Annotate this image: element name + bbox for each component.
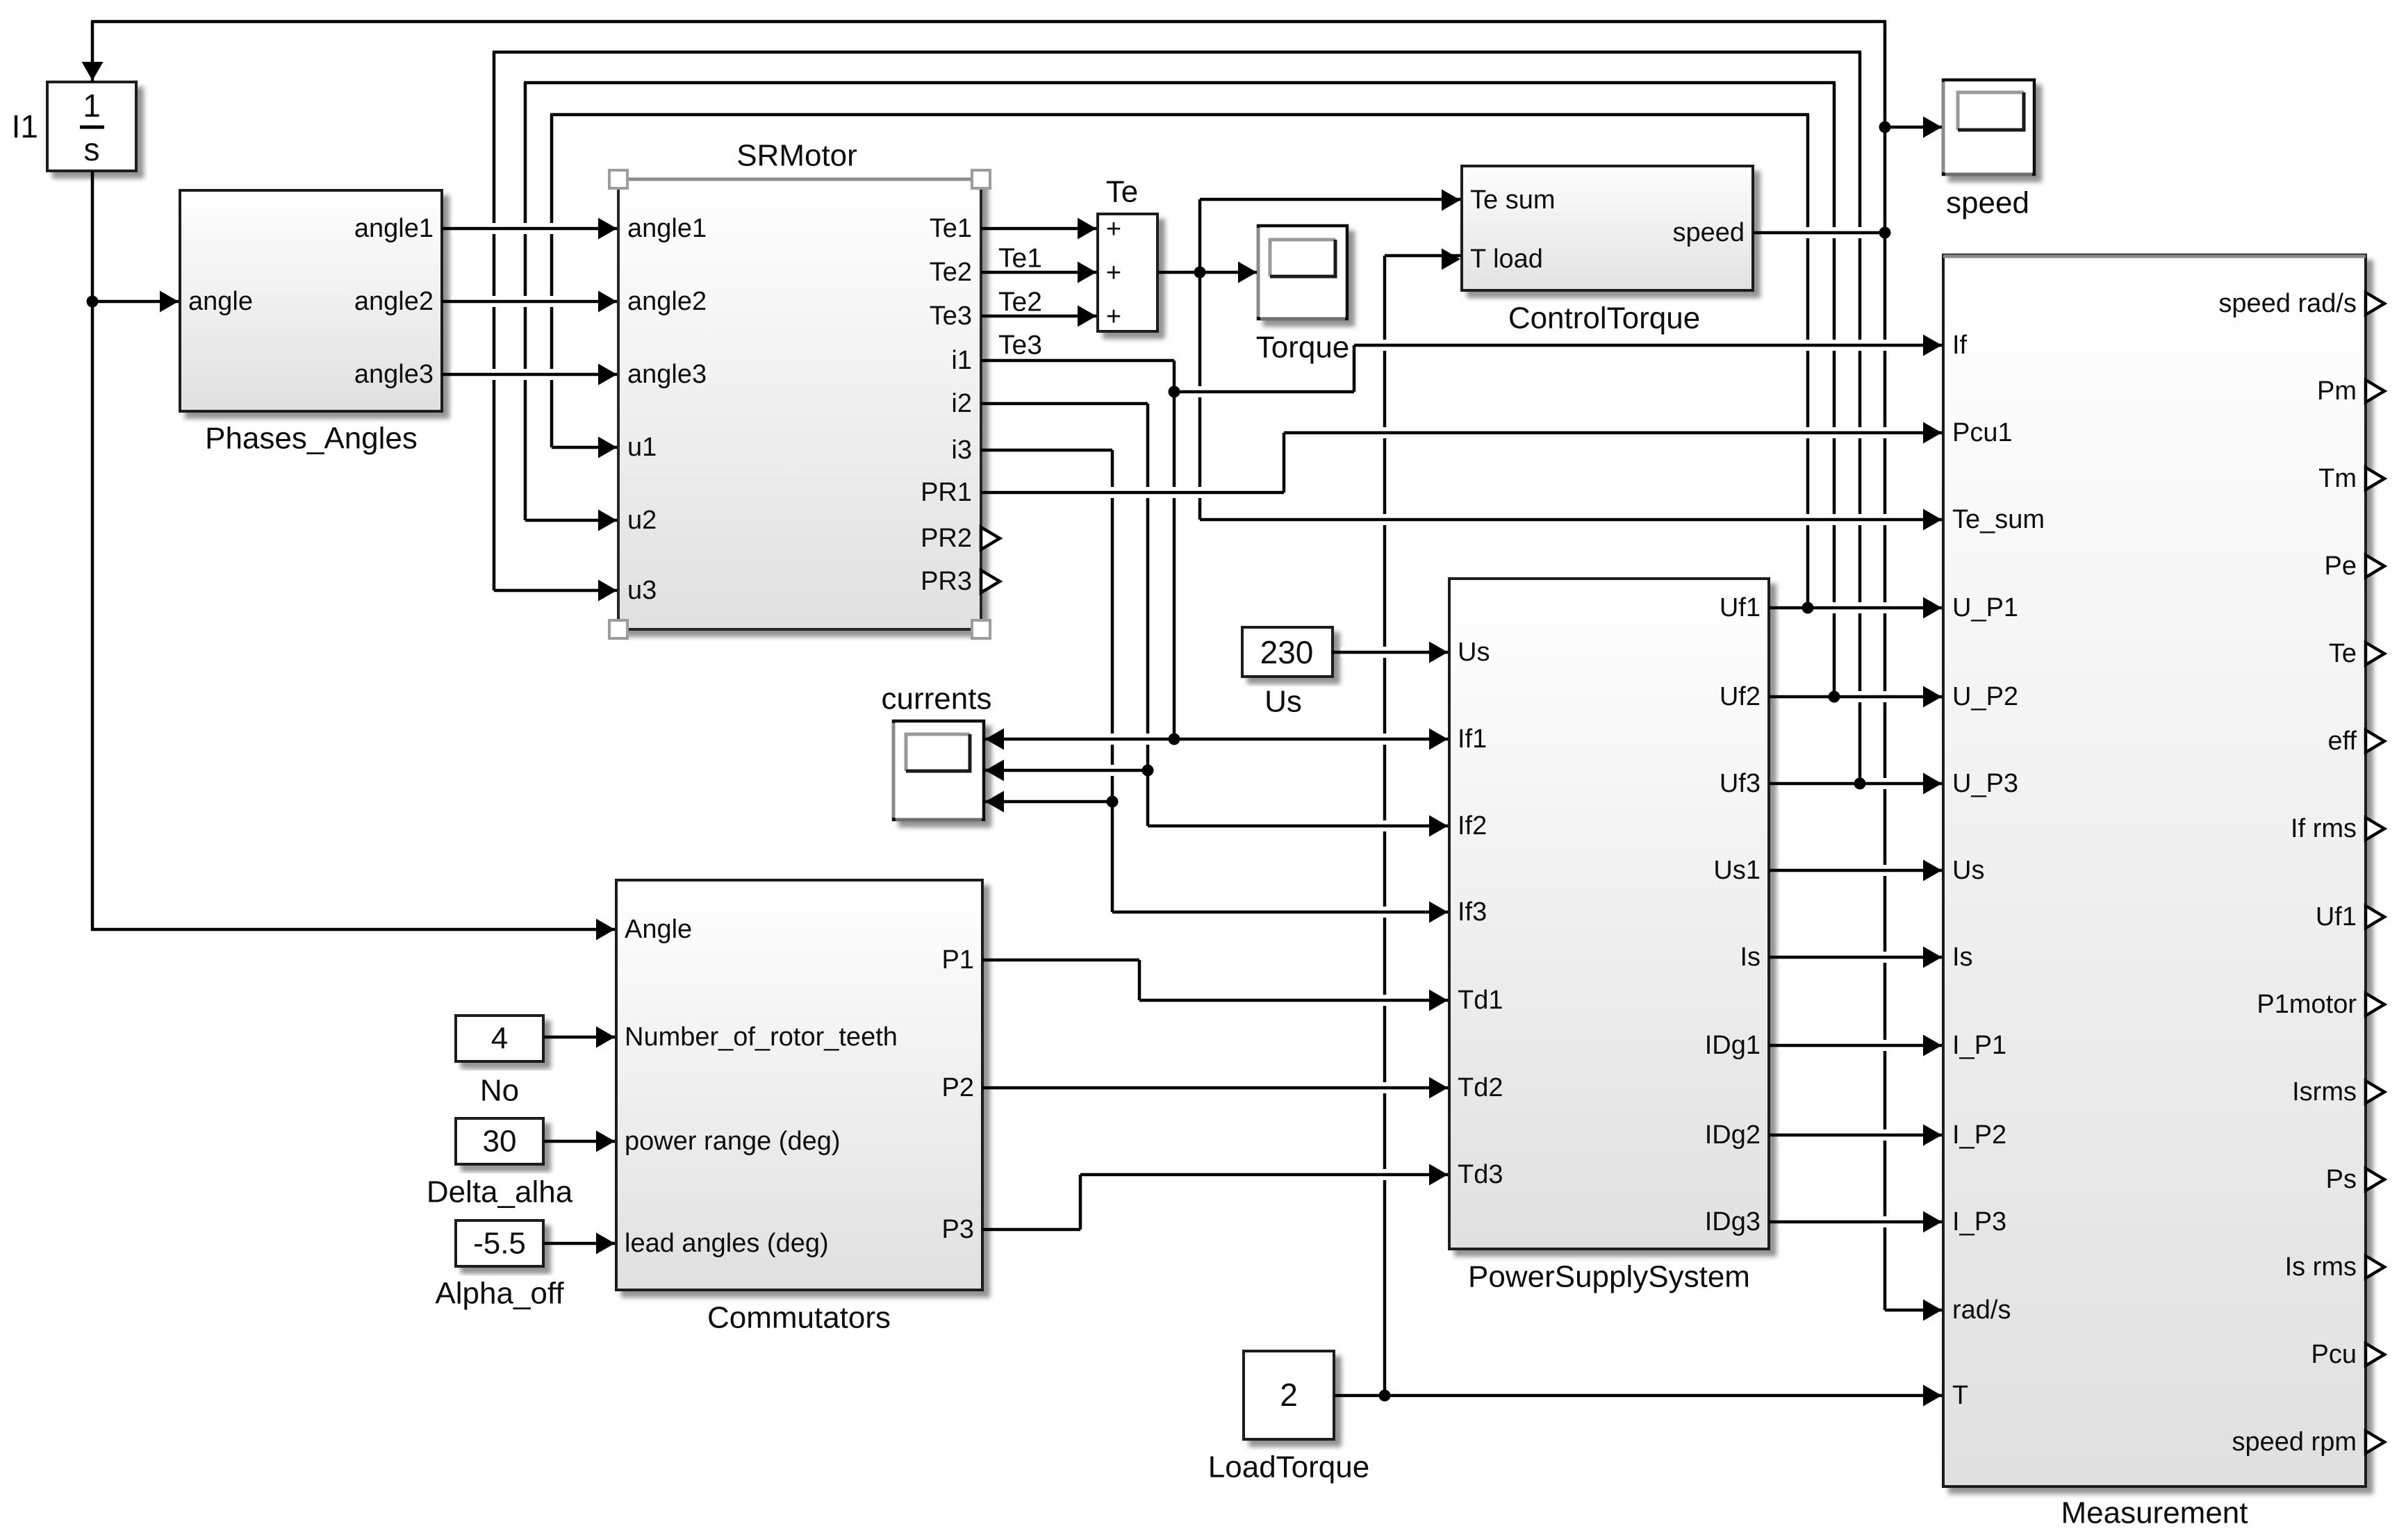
node Uf3 branch — [1854, 778, 1866, 790]
scope currents (mirrored) — [893, 721, 984, 820]
svg-text:rad/s: rad/s — [1952, 1295, 2011, 1325]
sum block Te — [1098, 214, 1157, 331]
wire Uf1 feedback riser — [1806, 115, 1810, 608]
svg-text:i3: i3 — [951, 436, 972, 465]
svg-text:speed: speed — [1946, 186, 2029, 220]
svg-text:i1: i1 — [951, 346, 972, 375]
svg-text:P3: P3 — [942, 1215, 974, 1244]
svg-text:Uf3: Uf3 — [1720, 769, 1761, 798]
svg-text:Te2: Te2 — [998, 288, 1042, 317]
constant No value 4 — [456, 1016, 543, 1061]
svg-text:Pcu: Pcu — [2311, 1340, 2357, 1369]
svg-text:ControlTorque: ControlTorque — [1508, 301, 1700, 336]
svg-text:Angle: Angle — [625, 915, 692, 944]
wire angle3 — [452, 369, 610, 380]
svg-text:Is: Is — [1952, 943, 1973, 972]
svg-text:angle2: angle2 — [627, 287, 707, 316]
wire Te_sum down to Measurement — [1210, 514, 1937, 525]
wire u2 feedback riser — [524, 83, 527, 520]
node angle branch — [87, 296, 99, 308]
svg-text:Te1: Te1 — [930, 214, 972, 243]
svg-text:Te3: Te3 — [930, 301, 972, 331]
open port PR3 — [981, 570, 1000, 593]
svg-text:LoadTorque: LoadTorque — [1208, 1450, 1369, 1484]
svg-text:angle3: angle3 — [627, 360, 707, 389]
arrow into I1 — [82, 62, 104, 81]
wire LoadTorque to T — [1334, 1394, 1942, 1398]
svg-text:4: 4 — [491, 1022, 508, 1056]
wire i1 — [981, 359, 1174, 363]
wire to Commutators Angle — [91, 928, 615, 932]
subsystem ControlTorque — [1462, 166, 1753, 290]
node speed scope branch — [1879, 122, 1891, 133]
svg-text:If2: If2 — [1458, 811, 1487, 841]
svg-text:Delta_alha: Delta_alha — [427, 1175, 573, 1209]
svg-text:Tm: Tm — [2318, 464, 2357, 493]
svg-text:u3: u3 — [627, 576, 657, 605]
wire i3 — [981, 449, 1112, 452]
wire Te sum up to ControlTorque — [1200, 198, 1460, 201]
svg-text:Te sum: Te sum — [1470, 185, 1555, 215]
subsystem PowerSupplySystem — [1449, 579, 1769, 1249]
wire Uf3 to u3 top — [493, 51, 1861, 54]
wire i3 riser — [1111, 450, 1114, 912]
wire Is to Is — [1779, 952, 1937, 963]
arrow into speed scope — [1923, 117, 1942, 138]
node Uf1 branch — [1802, 602, 1814, 614]
svg-text:s: s — [84, 131, 100, 167]
wire Te sum output — [1157, 271, 1257, 274]
svg-text:Pcu1: Pcu1 — [1952, 418, 2013, 447]
svg-text:Te: Te — [1106, 175, 1138, 209]
svg-text:SRMotor: SRMotor — [736, 139, 857, 173]
svg-text:Number_of_rotor_teeth: Number_of_rotor_teeth — [625, 1022, 898, 1052]
svg-text:power range (deg): power range (deg) — [625, 1127, 841, 1156]
svg-text:Td2: Td2 — [1458, 1073, 1503, 1102]
arrow into T load port — [1442, 249, 1460, 270]
node i3-currents junction — [1107, 796, 1119, 808]
svg-text:If: If — [1952, 331, 1968, 360]
wire into u2 — [525, 519, 617, 522]
wire Alpha_off — [543, 1242, 615, 1245]
svg-text:T load: T load — [1470, 245, 1543, 274]
svg-text:PR2: PR2 — [921, 524, 972, 553]
svg-text:Phases_Angles: Phases_Angles — [205, 422, 418, 456]
svg-text:Ps: Ps — [2326, 1165, 2357, 1194]
svg-text:speed rpm: speed rpm — [2232, 1427, 2357, 1457]
wire Te_sum riser — [1198, 199, 1202, 520]
wire No — [543, 1036, 615, 1039]
constant Us value 230 — [1242, 627, 1333, 677]
wire P3 to Td3 — [982, 1228, 1080, 1232]
wire Us1 to Us — [1779, 865, 1937, 876]
subsystem SRMotor — [618, 179, 981, 629]
svg-text:Td1: Td1 — [1458, 986, 1503, 1015]
svg-text:IDg3: IDg3 — [1705, 1207, 1761, 1236]
svg-text:IDg2: IDg2 — [1705, 1120, 1761, 1150]
wire Uf2 to u2 top — [524, 81, 1836, 85]
scope speed — [1943, 80, 2034, 174]
wire P1 to Td1 — [982, 959, 1139, 962]
open ports Measurement outputs — [2366, 292, 2384, 315]
svg-text:30: 30 — [483, 1125, 517, 1159]
constant Alpha_off value -5.5 — [456, 1220, 543, 1266]
wire T load — [1385, 254, 1460, 258]
svg-text:+: + — [1106, 258, 1121, 288]
wire into u3 — [494, 589, 617, 593]
svg-text:P1: P1 — [942, 945, 974, 975]
node Te sum branch — [1194, 267, 1206, 279]
arrow into angle — [160, 291, 179, 313]
svg-text:speed: speed — [1672, 218, 1745, 247]
wire If1 row — [995, 734, 1440, 745]
svg-text:Commutators: Commutators — [707, 1301, 891, 1335]
integrator I1 (1/s) — [47, 82, 136, 171]
wire angle1 — [452, 223, 610, 234]
wire to angle input — [92, 300, 179, 304]
svg-text:lead angles (deg): lead angles (deg) — [625, 1229, 829, 1258]
svg-text:Us: Us — [1458, 638, 1490, 667]
svg-text:Is: Is — [1740, 943, 1761, 972]
wire I1 output down — [91, 171, 94, 931]
svg-text:Te: Te — [2329, 639, 2357, 668]
arrows into Measurement — [1923, 335, 1942, 356]
subsystem Measurement — [1943, 255, 2366, 1487]
svg-text:U_P1: U_P1 — [1952, 593, 2018, 622]
wire Te2 — [981, 271, 1096, 274]
svg-text:PowerSupplySystem: PowerSupplySystem — [1468, 1260, 1750, 1294]
svg-text:Us1: Us1 — [1713, 856, 1761, 885]
svg-text:+: + — [1106, 302, 1121, 331]
svg-text:angle1: angle1 — [354, 214, 434, 243]
svg-text:angle3: angle3 — [354, 360, 434, 389]
svg-text:T: T — [1952, 1381, 1968, 1410]
wire Te1 — [981, 227, 1096, 231]
arrows into PowerSupplySystem — [1429, 642, 1448, 663]
wire Te3 — [981, 315, 1096, 318]
svg-text:230: 230 — [1260, 634, 1314, 670]
svg-text:If1: If1 — [1458, 725, 1487, 754]
wire Uf3 feedback riser — [1858, 52, 1862, 784]
svg-text:I_P1: I_P1 — [1952, 1031, 2006, 1060]
wire angle2 — [452, 296, 610, 307]
svg-text:currents: currents — [882, 682, 992, 716]
svg-text:speed rad/s: speed rad/s — [2218, 289, 2357, 318]
svg-text:PR3: PR3 — [921, 567, 972, 596]
svg-text:Isrms: Isrms — [2292, 1077, 2357, 1107]
wire to rad/s — [1885, 1309, 1942, 1312]
svg-text:IDg1: IDg1 — [1705, 1031, 1761, 1060]
wire PR1 to Pcu1 — [994, 487, 1278, 498]
wire i2 riser — [1146, 404, 1150, 826]
wire to currents port3 — [984, 800, 1112, 804]
wire Uf1 to u1 top — [550, 113, 1809, 117]
svg-text:Us: Us — [1952, 856, 1984, 885]
wire Uf2 feedback riser — [1833, 83, 1836, 697]
wire i2 — [981, 402, 1148, 406]
wire IDg1 to I_P1 — [1779, 1040, 1937, 1051]
svg-text:2: 2 — [1280, 1377, 1298, 1413]
svg-text:Alpha_off: Alpha_off — [435, 1277, 564, 1311]
svg-text:Uf1: Uf1 — [2316, 902, 2357, 932]
node LoadTorque branch — [1379, 1390, 1391, 1402]
svg-text:No: No — [480, 1074, 519, 1108]
svg-text:Pe: Pe — [2325, 552, 2357, 581]
svg-text:angle: angle — [188, 287, 253, 316]
constant Delta_alha value 30 — [456, 1118, 543, 1164]
svg-text:Is rms: Is rms — [2285, 1252, 2357, 1282]
svg-text:Uf1: Uf1 — [1720, 593, 1761, 622]
wire speed feedback top — [91, 20, 1886, 24]
svg-text:If3: If3 — [1458, 897, 1487, 927]
arrows into Commutators — [596, 919, 615, 941]
svg-text:u1: u1 — [627, 433, 657, 462]
svg-text:Td3: Td3 — [1458, 1160, 1503, 1189]
svg-text:Te2: Te2 — [930, 258, 972, 287]
wire speed output — [1762, 227, 1876, 238]
wire into u1 — [552, 446, 617, 449]
wire Delta_alha — [543, 1140, 615, 1143]
svg-text:-5.5: -5.5 — [473, 1227, 526, 1261]
svg-text:I_P3: I_P3 — [1952, 1207, 2006, 1236]
open port PR2 — [981, 527, 1000, 549]
svg-text:i2: i2 — [951, 389, 972, 418]
svg-text:Te1: Te1 — [998, 244, 1042, 274]
subsystem Commutators — [616, 880, 982, 1290]
subsystem Phases_Angles — [180, 190, 442, 411]
svg-text:Torque: Torque — [1256, 331, 1350, 365]
svg-text:u2: u2 — [627, 506, 657, 535]
wire to speed scope — [1885, 126, 1942, 129]
svg-text:Pm: Pm — [2317, 376, 2357, 406]
wire to currents port2 — [995, 765, 1139, 776]
arrows into SRMotor — [598, 218, 617, 240]
wire i1 riser — [1173, 361, 1176, 739]
node speed wire junction — [1879, 227, 1891, 239]
arrows into Te sum — [1078, 218, 1096, 240]
wire IDg3 to I_P3 — [1779, 1216, 1937, 1227]
svg-text:Us: Us — [1264, 685, 1302, 719]
wire IDg2 to I_P2 — [1779, 1129, 1937, 1141]
node i1-If1 junction — [1169, 734, 1180, 745]
wire P2 to Td2 — [994, 1082, 1440, 1093]
scope Torque — [1258, 226, 1347, 319]
svg-text:angle2: angle2 — [354, 287, 434, 316]
svg-text:P2: P2 — [942, 1073, 974, 1102]
wire u3 feedback riser — [493, 52, 496, 590]
wire Uf3 to U_P3 — [1779, 778, 1937, 789]
node If branch — [1169, 386, 1180, 398]
svg-text:PR1: PR1 — [921, 478, 972, 507]
wire T load riser — [1383, 256, 1387, 1396]
arrow into Te sum port — [1442, 190, 1460, 211]
wire u1 feedback riser — [550, 115, 554, 447]
arrows into currents scope — [985, 729, 1004, 750]
node Uf2 branch — [1829, 691, 1840, 703]
svg-text:Uf2: Uf2 — [1720, 682, 1761, 711]
svg-text:Te_sum: Te_sum — [1952, 505, 2045, 534]
svg-text:Te3: Te3 — [998, 331, 1042, 361]
svg-text:I1: I1 — [12, 108, 38, 144]
constant LoadTorque value 2 — [1244, 1351, 1334, 1439]
svg-text:eff: eff — [2327, 727, 2357, 756]
wire If2 row — [1159, 820, 1440, 831]
svg-text:P1motor: P1motor — [2257, 990, 2357, 1019]
wire speed feedback riser — [1883, 22, 1887, 1310]
svg-text:If rms: If rms — [2291, 814, 2357, 843]
svg-text:+: + — [1106, 215, 1121, 244]
svg-text:1: 1 — [83, 88, 101, 124]
wire Uf1 to U_P1 — [1779, 602, 1937, 613]
svg-text:Measurement: Measurement — [2061, 1496, 2248, 1530]
svg-text:angle1: angle1 — [627, 214, 707, 243]
node i2-currents junction — [1142, 765, 1154, 777]
wire If3 row — [1124, 906, 1440, 918]
wire If branch — [1184, 386, 1348, 397]
wire Uf2 to U_P2 — [1779, 691, 1937, 702]
svg-text:I_P2: I_P2 — [1952, 1120, 2006, 1150]
wire Us 230 — [1341, 647, 1440, 658]
svg-text:U_P2: U_P2 — [1952, 682, 2018, 711]
svg-text:U_P3: U_P3 — [1952, 769, 2018, 798]
arrow into Torque scope — [1238, 262, 1257, 283]
